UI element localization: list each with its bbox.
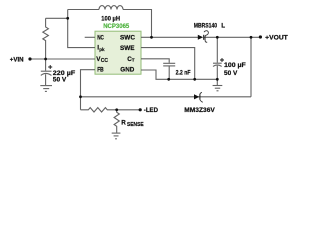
svg-text:+VOUT: +VOUT: [265, 35, 288, 42]
svg-text:SENSE: SENSE: [127, 122, 144, 128]
svg-text:2.2 nF: 2.2 nF: [176, 69, 191, 76]
svg-text:FB: FB: [97, 67, 104, 74]
svg-text:50 V: 50 V: [53, 77, 67, 84]
svg-text:+VIN: +VIN: [10, 56, 24, 63]
svg-text:SWE: SWE: [120, 45, 135, 52]
svg-text:100 µF: 100 µF: [224, 62, 246, 69]
svg-text:T: T: [132, 58, 135, 63]
svg-text:L: L: [221, 22, 225, 29]
svg-text:-LED: -LED: [144, 107, 159, 114]
svg-text:R: R: [121, 120, 126, 127]
svg-text:NC: NC: [97, 35, 104, 42]
svg-text:CC: CC: [101, 58, 109, 64]
svg-text:NCP3065: NCP3065: [103, 23, 130, 30]
svg-text:GND: GND: [120, 67, 134, 74]
svg-text:SWC: SWC: [120, 35, 135, 42]
svg-text:100 µH: 100 µH: [101, 16, 120, 23]
svg-text:50 V: 50 V: [224, 70, 238, 77]
svg-text:MBRS140: MBRS140: [194, 22, 218, 29]
svg-text:pk: pk: [99, 47, 105, 52]
svg-text:MM3Z36V: MM3Z36V: [184, 107, 215, 114]
